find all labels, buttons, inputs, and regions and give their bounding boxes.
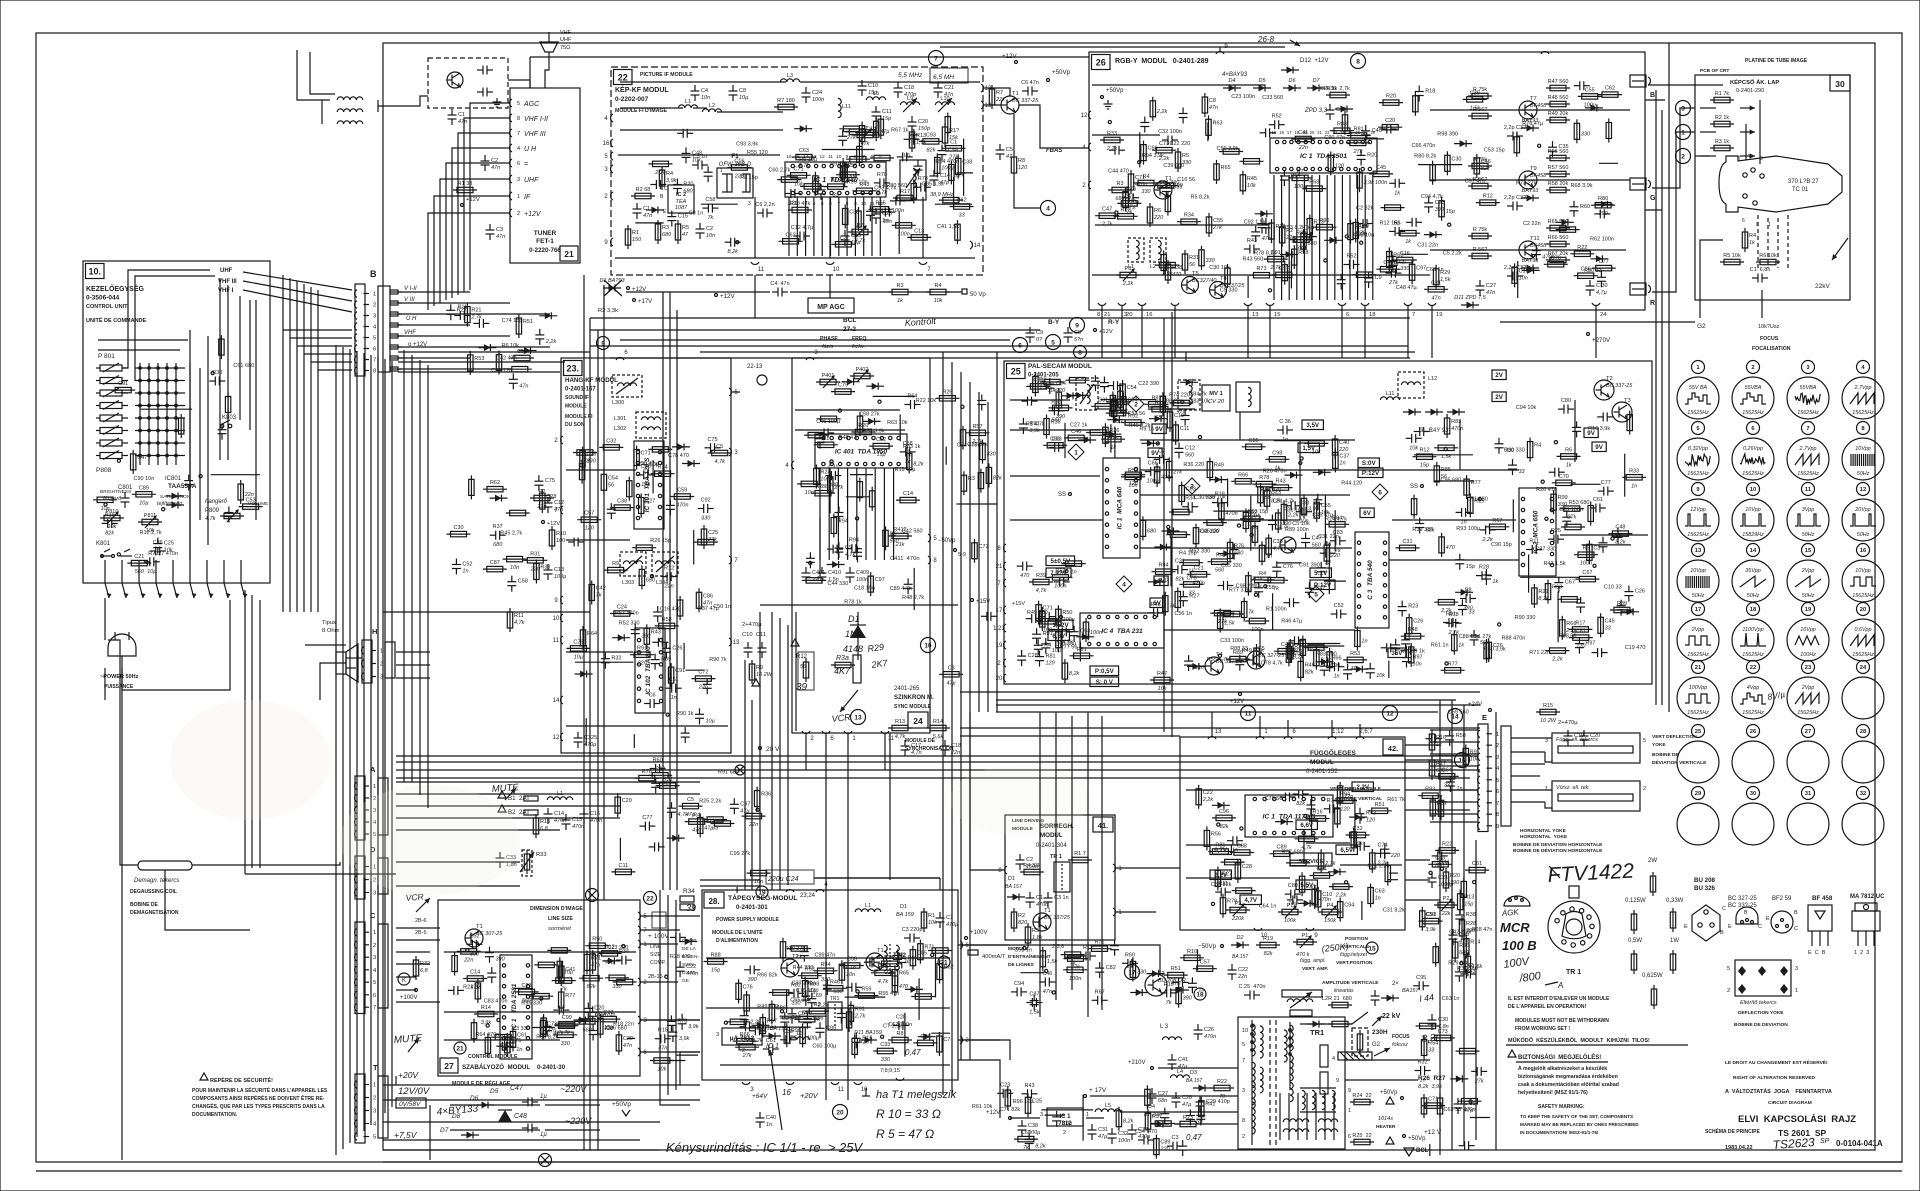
box10 rails: [189, 330, 191, 560]
resistor R10: [575, 1020, 599, 1022]
bottom-right area divider: [1495, 712, 1497, 1150]
svg-text:3: 3: [643, 1018, 647, 1024]
capacitor C66: [1389, 182, 1395, 184]
svg-text:R48 47n: R48 47n: [838, 435, 859, 441]
capacitor C21 47n: [937, 82, 939, 88]
svg-text:19: 19: [1436, 312, 1442, 318]
diamond 4: [1116, 576, 1132, 592]
resistor C51: [1419, 920, 1443, 922]
svg-text:10k?Usz: 10k?Usz: [1758, 324, 1780, 330]
capacitor R5: [1389, 230, 1395, 232]
svg-text:R25: R25: [1551, 528, 1561, 534]
resistor C91: [1264, 258, 1288, 260]
module 42 label: [1383, 739, 1403, 755]
svg-text:0,47: 0,47: [1186, 1133, 1202, 1142]
resistor R92: [871, 972, 895, 974]
capacitor R32: [1602, 537, 1604, 543]
svg-text:C97: C97: [875, 577, 885, 583]
RGB left pin 12: [1089, 111, 1091, 119]
resistor R8: [1396, 232, 1420, 234]
svg-text:R48: R48: [1408, 627, 1418, 633]
svg-text:R15: R15: [1543, 703, 1553, 709]
svg-text:10k: 10k: [692, 157, 701, 163]
capacitor C10: [634, 624, 636, 630]
capacitor C99: [819, 1022, 821, 1028]
capacitor C98: [1400, 649, 1406, 651]
svg-text:fókusz: fókusz: [1392, 1042, 1408, 1048]
svg-text:R55 47n: R55 47n: [878, 991, 899, 997]
wire: [780, 1015, 827, 1017]
svg-text:32: 32: [1860, 791, 1866, 797]
pal wires v: [1239, 412, 1241, 440]
node: [1052, 991, 1055, 994]
resistor R70: [1210, 612, 1234, 614]
+12V top r: [1015, 61, 1018, 64]
resistor C5: [708, 452, 732, 454]
svg-text:C54: C54: [1127, 385, 1137, 391]
svg-text:C16: C16: [590, 811, 600, 817]
voltage box 6V b: [1150, 598, 1164, 608]
resistor R77: [560, 988, 562, 1012]
resistor R94: [814, 970, 838, 972]
svg-text:7: 7: [1242, 1058, 1245, 1064]
svg-text:R20: R20: [683, 182, 693, 188]
capacitor R29: [509, 1037, 511, 1043]
resistor C39: [1320, 849, 1322, 873]
svg-text:U H: U H: [406, 316, 417, 322]
svg-text:C67: C67: [1565, 580, 1575, 586]
capacitor R23: [672, 1026, 674, 1032]
resistor C80: [240, 480, 242, 504]
svg-text:1n: 1n: [766, 1122, 772, 1128]
diode D10: [602, 960, 620, 962]
TR1 winding extra: [1252, 1085, 1255, 1104]
svg-text:27: 27: [1805, 729, 1811, 735]
svg-text:C8: C8: [1465, 588, 1472, 594]
capacitor R10: [1285, 505, 1291, 507]
svg-text:31: 31: [1805, 791, 1812, 797]
svg-text:VHF I-II: VHF I-II: [524, 116, 548, 123]
diode D8: [1424, 234, 1442, 236]
resistor R94: [833, 514, 835, 538]
svg-text:fázis: fázis: [822, 344, 834, 350]
resistor R13: [1359, 168, 1361, 192]
svg-text:7: 7: [1496, 801, 1499, 807]
resistor R57: [966, 432, 990, 434]
svg-text:16: 16: [1860, 548, 1867, 554]
svg-text:4: 4: [604, 116, 608, 122]
svg-text:R80 8,2k: R80 8,2k: [1414, 154, 1436, 160]
capacitor C96: [546, 1021, 548, 1027]
resistor C56: [1435, 943, 1437, 967]
small TR1 m28: [828, 1002, 842, 1030]
capacitor C63: [1280, 796, 1286, 798]
svg-text:REPÈRE DE SÉCURITÉ!: REPÈRE DE SÉCURITÉ!: [210, 1076, 273, 1084]
resistor C71: [1130, 170, 1132, 194]
transistor T1 BC337-25: [1001, 96, 1019, 114]
voltage box 3,5V: [1302, 420, 1323, 430]
svg-text:+7,5V: +7,5V: [394, 1130, 418, 1140]
node: [1240, 827, 1243, 830]
svg-text:4148: 4148: [843, 644, 863, 654]
svg-text:27k: 27k: [1566, 515, 1576, 521]
R28 390: [1461, 916, 1463, 940]
capacitor C66: [1592, 652, 1598, 654]
wire yoke h rails: [1511, 763, 1545, 765]
svg-text:C46 100µ: C46 100µ: [816, 419, 841, 425]
resistor R99: [552, 980, 576, 982]
svg-text:1n: 1n: [1631, 483, 1637, 489]
capacitor C20 150p: [911, 116, 913, 122]
capacitor R52: [1269, 124, 1275, 126]
svg-text:IC 4 TBA 231: IC 4 TBA 231: [1101, 628, 1143, 635]
resistor R82: [1289, 239, 1313, 241]
node: [466, 949, 469, 952]
svg-text:15625Hz: 15625Hz: [1742, 410, 1764, 416]
svg-text:C71: C71: [641, 451, 651, 457]
svg-text:220: 220: [1055, 388, 1066, 394]
resistor C1: [942, 147, 966, 149]
svg-text:10: 10: [861, 1087, 868, 1093]
left long wires: [108, 640, 120, 700]
transistor T1 BF199: [1154, 181, 1172, 199]
svg-text:R14: R14: [933, 719, 943, 725]
capacitor R90: [1310, 799, 1312, 805]
svg-text:L5: L5: [1105, 1103, 1111, 1109]
C3 220p: [904, 937, 910, 939]
svg-text:27k: 27k: [1217, 619, 1227, 625]
svg-text:TR1: TR1: [1310, 1028, 1324, 1037]
resistor R12: [1476, 202, 1500, 204]
svg-text:6: 6: [624, 350, 628, 356]
capacitor R5: [1056, 631, 1062, 633]
svg-text:µA 7812: µA 7812: [730, 1035, 755, 1042]
coil L7 box pal: [1178, 380, 1200, 410]
resistor C63: [1370, 884, 1372, 908]
diode D5: [1187, 665, 1205, 667]
resistor C71: [636, 446, 638, 470]
wire: [1064, 423, 1066, 458]
resistor C86: [957, 220, 959, 244]
C41 47u: [1171, 1054, 1173, 1060]
resistor R66: [733, 1040, 757, 1042]
svg-text:1: 1: [380, 649, 383, 655]
resistor C45: [1600, 613, 1602, 637]
svg-text:R3a: R3a: [836, 655, 849, 662]
svg-text:P3: P3: [1235, 901, 1242, 907]
svg-text:BC 327-25: BC 327-25: [1258, 653, 1285, 659]
svg-text:C86: C86: [703, 593, 713, 599]
capacitor R43: [1458, 966, 1460, 972]
svg-text:470n: 470n: [676, 503, 688, 509]
capacitor C66: [1392, 255, 1394, 261]
svg-text:14: 14: [974, 243, 981, 249]
svg-text:47n: 47n: [1209, 105, 1218, 111]
capacitor C92: [698, 508, 704, 510]
svg-text:220: 220: [1390, 853, 1401, 859]
svg-text:R70: R70: [877, 172, 887, 178]
resistor C49: [1608, 119, 1610, 143]
module 41 box: [1005, 815, 1115, 940]
C30 7,8n: [1431, 1014, 1433, 1020]
resistor C93: [919, 140, 943, 142]
wire: [1041, 1109, 1093, 1111]
diamond 2: [1128, 396, 1144, 412]
capacitor C1 47n: [636, 203, 638, 209]
resistor R69: [795, 1018, 819, 1020]
waveform test point 11: [1802, 483, 1815, 496]
svg-text:28: 28: [1860, 729, 1867, 735]
diode D8: [1180, 381, 1198, 383]
svg-text:DIMENSION D'IMAGE: DIMENSION D'IMAGE: [530, 906, 583, 912]
svg-text:C95 680: C95 680: [1441, 478, 1462, 484]
resistor R14: [1465, 935, 1467, 959]
control bus to connector B: [243, 272, 352, 290]
svg-text:HANG-KF MODUL: HANG-KF MODUL: [565, 377, 618, 384]
resistor R68: [703, 819, 727, 821]
wire: [141, 408, 192, 410]
resistor R57: [1112, 391, 1114, 415]
svg-text:5-9: 5-9: [958, 552, 966, 558]
wire: [1100, 399, 1156, 401]
antenna feed wires: [297, 85, 330, 100]
svg-text:41.: 41.: [1098, 821, 1108, 830]
svg-text:R-Y: R-Y: [1108, 319, 1120, 326]
svg-text:R97: R97: [1585, 641, 1595, 647]
svg-text:R14: R14: [1470, 940, 1480, 946]
resistor R63: [1101, 438, 1125, 440]
resistor C51: [510, 357, 534, 359]
resistor C28: [1516, 133, 1518, 157]
svg-text:3Vpp: 3Vpp: [1802, 507, 1815, 513]
node: [1440, 867, 1443, 870]
resistor C55: [1163, 251, 1165, 275]
svg-text:C48: C48: [514, 1113, 527, 1120]
svg-text:C6 2,2n: C6 2,2n: [755, 202, 774, 208]
resistor C37: [1334, 448, 1336, 472]
svg-text:10: 10: [553, 616, 560, 622]
svg-text:22: 22: [1750, 665, 1756, 671]
svg-text:1k: 1k: [1458, 643, 1464, 649]
resistor C19: [1169, 408, 1171, 432]
svg-text:L2: L2: [709, 103, 715, 109]
svg-text:4: 4: [1861, 365, 1865, 371]
circled 13: [851, 710, 866, 725]
capacitor C325 470µ: [577, 732, 579, 738]
sync bottom caps: [805, 567, 807, 573]
diode D2: [1522, 269, 1540, 271]
pot P1 470k: [1293, 941, 1317, 943]
resistor R43: [852, 190, 876, 192]
resistor C54: [603, 470, 605, 494]
svg-text:+50Vp: +50Vp: [1052, 69, 1071, 76]
svg-text:12: 12: [1081, 113, 1088, 119]
resistor C1: [1410, 643, 1412, 667]
capacitor R43: [1359, 808, 1361, 814]
wire: [1334, 510, 1336, 551]
resistor C62: [1240, 518, 1264, 520]
wire: [1512, 499, 1514, 532]
svg-text:C78: C78: [573, 639, 583, 645]
svg-text:C76: C76: [1283, 564, 1293, 570]
H connector compb: [362, 640, 372, 683]
svg-text:470n: 470n: [554, 818, 566, 824]
svg-text:R8: R8: [896, 1031, 903, 1037]
resistor R19: [1288, 642, 1290, 666]
svg-text:2,2k: 2,2k: [749, 1020, 761, 1026]
waveform test point 16: [1857, 544, 1870, 557]
node: [809, 561, 812, 564]
svg-text:22: 22: [618, 73, 628, 83]
diode D1 hw: [850, 625, 866, 638]
svg-text:7: 7: [927, 267, 931, 273]
resistor C31: [1091, 405, 1115, 407]
resistor C26: [1434, 447, 1458, 449]
svg-text:C31 22n: C31 22n: [1318, 534, 1339, 540]
IC1 TDA1170S: [1245, 795, 1333, 837]
svg-text:D12 +12V: D12 +12V: [1300, 58, 1329, 64]
svg-text:BA 157: BA 157: [1232, 954, 1248, 960]
capacitor C53: [1261, 218, 1263, 224]
wire: [1517, 261, 1519, 298]
svg-text:C83 470n: C83 470n: [484, 999, 508, 1005]
svg-text:R12: R12: [1419, 448, 1429, 454]
resistor R51: [1164, 974, 1188, 976]
svg-text:R4: R4: [1044, 642, 1051, 648]
svg-text:3,9k: 3,9k: [1308, 506, 1319, 512]
resistor C93: [515, 991, 539, 993]
C34 470: [1138, 1139, 1144, 1141]
capacitor C6 2,2n: [757, 212, 763, 214]
module 28 right wires: [962, 944, 1010, 946]
resistor R42: [1058, 388, 1060, 412]
svg-text:5: 5: [734, 390, 738, 396]
svg-text:120: 120: [1576, 644, 1586, 650]
resistor R30: [1085, 618, 1087, 642]
svg-text:C32: C32: [1118, 1131, 1128, 1137]
resistor R17: [1568, 628, 1592, 630]
resistor R42: [797, 483, 821, 485]
capacitor C42: [1460, 973, 1466, 975]
resistor C61: [512, 1027, 514, 1051]
resistor R76: [635, 777, 659, 779]
resistor C12: [598, 952, 622, 954]
capacitor R87: [677, 132, 683, 134]
svg-text:R48 2,7k: R48 2,7k: [902, 595, 924, 601]
voltage box 152: [1048, 620, 1073, 630]
diode D1: [1078, 439, 1096, 441]
resistor R51: [656, 785, 680, 787]
svg-text:L12: L12: [1428, 376, 1437, 382]
svg-text:4,7k: 4,7k: [895, 734, 906, 740]
circled 22b: [644, 892, 657, 905]
bus v IF-11: [754, 275, 756, 318]
svg-text:C4 47n: C4 47n: [770, 281, 789, 287]
resistor R31: [523, 559, 547, 561]
svg-text:2: 2: [1242, 1134, 1245, 1140]
svg-text:5: 5: [517, 101, 520, 107]
svg-text:23: 23: [1805, 665, 1812, 671]
svg-text:9V: 9V: [1151, 450, 1159, 457]
svg-text:23.: 23.: [566, 364, 579, 374]
diode D3: [1285, 474, 1303, 476]
svg-text:C39 680: C39 680: [1163, 163, 1184, 169]
resistor R2: [530, 497, 554, 499]
resistor R1 150: [627, 225, 629, 249]
pal wires h: [1010, 429, 1100, 431]
resistor C39: [618, 1031, 620, 1055]
node: [650, 575, 653, 578]
module 22 wire h1: [620, 107, 683, 109]
capacitor C30: [1114, 940, 1116, 946]
svg-text:R46: R46: [830, 979, 840, 985]
resistor C14: [861, 122, 863, 146]
svg-text:C: C: [370, 911, 376, 920]
capacitor R20: [1103, 377, 1105, 383]
svg-text:R48 560: R48 560: [1548, 95, 1569, 101]
svg-text:−50Vp: −50Vp: [938, 538, 956, 544]
resistor R27: [928, 950, 952, 952]
resistor C29: [582, 447, 584, 471]
svg-text:+50Vp: +50Vp: [1380, 1090, 1398, 1096]
IC uA7812: [722, 1028, 762, 1045]
module 24 top pin3: [806, 358, 814, 360]
svg-text:12: 12: [553, 735, 560, 741]
E connector left wires: [1430, 729, 1478, 731]
svg-text:20: 20: [1126, 312, 1132, 318]
diode D12: [1148, 581, 1166, 583]
capacitor R89: [1164, 1108, 1166, 1114]
svg-text:82k: 82k: [1264, 951, 1273, 957]
svg-text:R43: R43: [859, 182, 869, 188]
module 22 wire v1: [754, 197, 756, 258]
svg-text:1k: 1k: [1749, 240, 1755, 246]
svg-text:C90 47n: C90 47n: [1324, 135, 1345, 141]
capacitor R8: [897, 156, 903, 158]
resistor R3: [963, 471, 965, 495]
diode D1: [794, 128, 812, 130]
svg-text:R1: R1: [632, 230, 639, 236]
transistor T4: [1210, 282, 1227, 299]
svg-text:P8: P8: [1125, 266, 1132, 272]
svg-text:3: 3: [1496, 755, 1499, 761]
resistor C60: [1330, 151, 1332, 175]
resistor R68: [845, 131, 869, 133]
svg-text:C38: C38: [1028, 1123, 1038, 1129]
wires band y755: [396, 755, 1478, 757]
resistor ladder row R56 560: [1468, 165, 1492, 167]
resistor R31: [477, 979, 479, 1003]
svg-text:R45: R45: [1247, 176, 1257, 182]
svg-text:15p: 15p: [1466, 564, 1475, 570]
svg-text:2+470µ: 2+470µ: [1558, 720, 1578, 726]
resistor C78: [1063, 969, 1087, 971]
svg-text:R 75k: R 75k: [1473, 87, 1488, 93]
resistor C17: [1041, 607, 1043, 631]
svg-text:BC 337-25: BC 337-25: [1216, 659, 1243, 665]
resistor C23: [1062, 563, 1086, 565]
resistor C41: [180, 414, 182, 438]
transistor T6 pal: [1280, 537, 1296, 553]
svg-text:6: 6: [1751, 426, 1755, 432]
svg-text:C24: C24: [1317, 867, 1327, 873]
svg-text:680: 680: [662, 232, 672, 238]
capacitor R11: [1526, 549, 1532, 551]
resistor R8: [1064, 659, 1066, 683]
resistor C63: [1283, 500, 1285, 524]
svg-text:10n: 10n: [706, 233, 715, 239]
svg-text:R99: R99: [1558, 495, 1568, 501]
